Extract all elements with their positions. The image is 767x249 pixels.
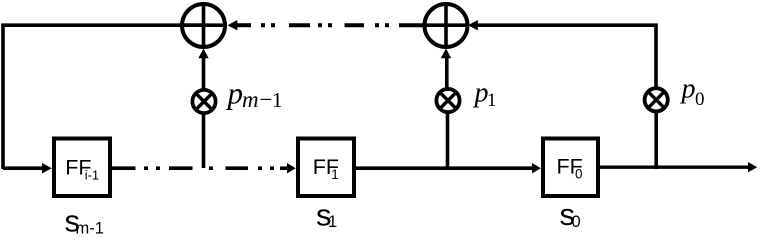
wire dashed ellipsis bus FF3 to FF1 [112,166,288,170]
wire from multiplier M2 up to U2 [445,57,449,91]
svg-text:−: − [260,87,273,112]
wire feedback right: horizontal from U2 to corner then down to multiplier M3 [477,25,656,89]
svg-text:0: 0 [575,167,583,182]
svg-text:1: 1 [272,88,283,112]
label FFi-1 [65,155,99,182]
arrowhead up into U2 bottom [441,49,451,59]
wire from multiplier M1 up to U1 [202,57,206,91]
svg-text:p: p [226,76,244,111]
wire bus FF1 to FF0 [356,166,533,170]
svg-text:0: 0 [572,213,581,231]
xor adder U1 (left circle-plus) [180,4,227,47]
multiplier M1 (circle-times) tap p_m-1 [192,90,215,113]
svg-text:1: 1 [487,90,497,111]
flip-flop FF1 box [298,139,354,197]
label p_m-1 [226,76,283,112]
wire tap M2 down to register bus [446,111,450,168]
label p_0 [680,74,705,111]
svg-text:1: 1 [328,213,337,231]
wire stub into FF3 input with arrowhead [3,166,43,170]
wire dashed ellipsis between U1 and U2 [237,23,426,27]
label s_0 [560,197,581,232]
label s_m-1 [65,204,104,239]
label p_1 [473,77,497,111]
svg-text:m-1: m-1 [76,220,104,238]
svg-text:0: 0 [695,89,705,110]
arrowhead up into U1 bottom [198,49,208,59]
svg-text:p: p [680,74,696,105]
arrowhead into U1 from right (dashed bus) [228,20,238,30]
label FF0 [557,155,583,182]
flip-flop FF3 box [54,139,110,197]
wire output bus from FF0 to the right [600,165,749,168]
label FF1 [313,155,339,182]
wire feedback left: vertical down left side and top horizontal into XOR U1 [3,25,204,169]
svg-text:m: m [242,87,259,112]
multiplier M2 (circle-times) tap p_1 [436,89,459,112]
flip-flop FF0 box [543,139,598,197]
wire tap M1 down to register bus [202,112,206,168]
multiplier M3 (circle-times) tap p_0 [645,88,668,111]
arrowhead into FF1 [287,163,296,173]
svg-text:1: 1 [331,167,339,182]
arrowhead output [748,162,757,172]
xor adder U2 (right circle-plus) [424,4,468,47]
svg-text:i-1: i-1 [85,167,99,182]
arrowhead into FF0 [532,163,541,173]
label s_1 [316,197,337,232]
arrowhead into U2 from right feedback wire [468,20,478,30]
wire tap M3 down to output bus [654,110,658,169]
